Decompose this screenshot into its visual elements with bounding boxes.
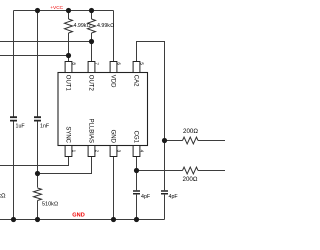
svg-text:4.99kΩ: 4.99kΩ: [97, 23, 114, 29]
pin 2 stub PLLBIAS: [88, 146, 95, 157]
pin 5 stub CA2: [133, 62, 140, 73]
node CA2 junction: [162, 138, 167, 143]
wire R1 leads to OUT1 pin: [68, 11, 70, 62]
capacitor C1 1uF: [10, 117, 17, 120]
pin 3 stub GND: [110, 146, 117, 157]
svg-text:510kΩ: 510kΩ: [42, 202, 58, 208]
svg-text:1uF: 1uF: [16, 123, 26, 129]
wire CG1 node down to C3: [136, 171, 138, 220]
node VCC-R2 junction: [89, 8, 94, 13]
capacitor C2 1nF: [34, 117, 41, 120]
svg-text:CA2: CA2: [133, 75, 139, 87]
svg-text:5: 5: [140, 62, 145, 65]
wire OUT1 net to left edge: [0, 55, 69, 57]
capacitor C3 4pF: [133, 191, 140, 194]
svg-text:200Ω: 200Ω: [183, 176, 198, 183]
IC U1 body: [58, 73, 148, 146]
wire SYNC pin to left edge: [0, 156, 69, 166]
svg-text:4: 4: [139, 150, 144, 153]
node PLLBIAS junction: [35, 171, 40, 176]
svg-text:4.99kΩ: 4.99kΩ: [74, 23, 91, 29]
wire +VCC rail: [14, 10, 114, 12]
node VCC-R1 junction: [66, 8, 71, 13]
node GND rail pin3 junction: [111, 217, 116, 222]
svg-text:200Ω: 200Ω: [183, 128, 198, 135]
pin 8 stub OUT1: [65, 62, 72, 73]
node OUT2 junction: [89, 39, 94, 44]
wire OUT2 net to left edge: [0, 41, 92, 43]
wire CA2 node right with R4: [165, 140, 226, 142]
wire GND rail: [0, 219, 165, 221]
resistor R4 200ohm: [183, 137, 199, 144]
resistor R1 4.99k: [65, 19, 73, 33]
node GND rail C1 junction: [11, 217, 16, 222]
pin 1 stub SYNC: [65, 146, 72, 157]
svg-text:GND: GND: [72, 213, 84, 219]
svg-text:GND: GND: [110, 130, 116, 144]
svg-text:CG1: CG1: [133, 131, 139, 144]
svg-text:1nF: 1nF: [40, 123, 50, 129]
wire PLLBIAS pin to R3 node: [38, 156, 92, 174]
svg-text:OUT2: OUT2: [88, 75, 94, 92]
resistor R5 200ohm: [183, 167, 199, 174]
svg-text:1: 1: [71, 150, 76, 153]
svg-text:3: 3: [116, 150, 121, 153]
wire VCC drop to C2 and R3 node: [37, 11, 39, 220]
wire VDD drop: [113, 11, 115, 62]
node VCC-C2 junction: [35, 8, 40, 13]
svg-text:SYNC: SYNC: [65, 126, 71, 143]
node GND rail R3 junction: [35, 217, 40, 222]
svg-text:8: 8: [72, 62, 77, 65]
pin 4 stub CG1: [133, 146, 140, 157]
wire CG1 pin to node: [136, 156, 138, 171]
resistor R3 510k: [34, 188, 42, 201]
svg-text:7: 7: [95, 62, 100, 65]
node CG1 junction: [134, 168, 139, 173]
wire GND pin drop: [113, 156, 115, 220]
pin 7 stub OUT2: [88, 62, 95, 73]
wire CA2 elbow to right column: [137, 42, 165, 141]
svg-text:kΩ: kΩ: [0, 194, 6, 200]
wire R2 leads to OUT2 pin: [91, 11, 93, 62]
wire CG1 node right with R5: [137, 170, 226, 172]
svg-text:2: 2: [94, 150, 99, 153]
svg-text:6: 6: [117, 62, 122, 65]
wire left VCC drop to C1: [13, 11, 15, 220]
capacitor C4 4pF: [161, 191, 168, 194]
svg-text:PLLBIAS: PLLBIAS: [88, 119, 94, 143]
svg-text:4pF: 4pF: [169, 194, 179, 200]
node GND rail C3 junction: [134, 217, 139, 222]
svg-text:VDD: VDD: [110, 75, 116, 88]
svg-text:OUT1: OUT1: [65, 75, 71, 92]
svg-text:4pF: 4pF: [141, 194, 151, 200]
node OUT1 junction: [66, 53, 71, 58]
svg-text:+VCC: +VCC: [50, 5, 63, 11]
resistor R2 4.99k: [88, 19, 96, 33]
pin 6 stub VDD: [110, 62, 117, 73]
wire CA2 node down to C4: [164, 141, 166, 220]
